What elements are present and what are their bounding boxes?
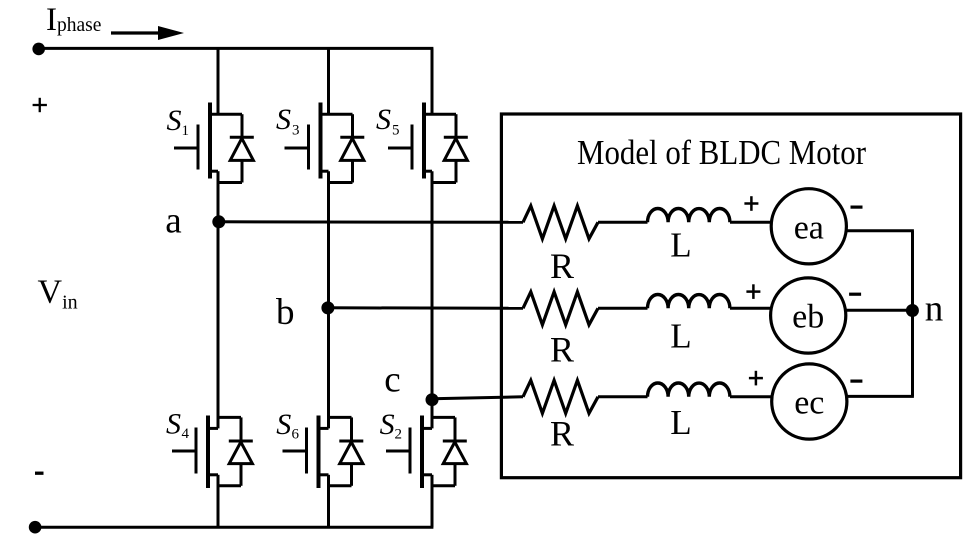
transistor S5 — [388, 103, 468, 183]
svg-text:5: 5 — [392, 122, 400, 138]
svg-text:L: L — [670, 403, 691, 442]
wire L to source eb — [730, 307, 771, 310]
svg-text:2: 2 — [395, 426, 403, 442]
box Model of BLDC Motor — [501, 114, 960, 478]
resistor R (b phase) — [523, 292, 598, 325]
svg-text:L: L — [670, 226, 691, 265]
wire node b to resistor R — [328, 306, 523, 310]
node DC+ terminal — [32, 43, 45, 56]
label plus (a phase) — [744, 196, 758, 211]
node b — [321, 301, 334, 314]
svg-text:S: S — [380, 408, 395, 441]
svg-text:R: R — [550, 414, 574, 454]
label minus (c phase) — [850, 380, 862, 383]
resistor R (a phase) — [523, 206, 598, 239]
wire node c to resistor R — [432, 397, 523, 399]
wire S3 source to node b — [327, 171, 330, 308]
svg-text:b: b — [276, 292, 295, 333]
transistor S3 — [285, 103, 365, 183]
svg-text:c: c — [384, 360, 400, 401]
wire R to L (b phase) — [598, 307, 648, 310]
svg-text:S: S — [166, 408, 181, 441]
wire L to source ea — [730, 221, 771, 224]
svg-text:L: L — [670, 317, 691, 356]
svg-text:S: S — [376, 103, 391, 136]
label plus — [33, 98, 47, 112]
svg-text:S: S — [276, 408, 291, 441]
svg-text:4: 4 — [182, 426, 190, 442]
source ec — [772, 364, 847, 439]
source eb — [771, 278, 846, 353]
svg-text:1: 1 — [182, 123, 190, 139]
wire eb to neutral bus — [846, 309, 914, 312]
wire node a to S4 drain — [217, 222, 220, 429]
svg-text:S: S — [276, 103, 291, 136]
wire node c to S2 drain — [431, 400, 434, 429]
wire ea to neutral bus — [846, 229, 914, 232]
wire neutral bus — [911, 231, 914, 397]
label minus (a phase) — [851, 206, 863, 209]
transistor S1 — [174, 103, 254, 183]
node a — [212, 215, 225, 228]
node DC- terminal — [29, 521, 42, 534]
wire S5 drain lead — [431, 48, 434, 115]
wire S1 source to node a — [217, 171, 220, 222]
svg-text:R: R — [550, 246, 574, 286]
inductor L (c phase) — [648, 383, 730, 397]
inductor L (a phase) — [648, 209, 730, 223]
svg-text:Model of BLDC Motor: Model of BLDC Motor — [577, 133, 866, 172]
svg-text:a: a — [165, 201, 181, 242]
wire node a to resistor R — [219, 220, 523, 224]
svg-text:ea: ea — [794, 209, 824, 246]
wire S5 source to node c — [431, 171, 434, 400]
svg-text:Vin: Vin — [38, 274, 78, 314]
label minus (b phase) — [849, 293, 861, 296]
svg-text:ec: ec — [794, 385, 824, 422]
svg-text:R: R — [550, 330, 574, 370]
arrow current direction — [111, 26, 184, 40]
svg-text:n: n — [925, 289, 944, 330]
svg-text:3: 3 — [292, 122, 300, 138]
node n — [906, 304, 919, 317]
wire S4 source lead — [217, 475, 220, 527]
label plus (b phase) — [746, 284, 760, 299]
wire S2 source lead — [431, 475, 434, 527]
svg-text:S: S — [167, 104, 182, 137]
wire L to source ec — [730, 395, 772, 398]
wire ec to neutral bus — [847, 395, 914, 398]
transistor S2 — [386, 416, 467, 489]
wire bottom bus — [35, 526, 433, 529]
node c — [426, 393, 439, 406]
wire S6 source lead — [327, 475, 330, 527]
transistor S6 — [283, 416, 364, 489]
source ea — [771, 189, 846, 264]
transistor S4 — [172, 416, 253, 489]
wire top bus — [39, 47, 434, 50]
wire R to L (a phase) — [598, 221, 648, 224]
resistor R (c phase) — [523, 380, 598, 413]
wire S1 drain lead — [217, 48, 220, 115]
wire node b to S6 drain — [327, 308, 330, 429]
svg-text:6: 6 — [292, 426, 300, 442]
label minus — [35, 472, 44, 475]
svg-text:Iphase: Iphase — [46, 2, 101, 38]
label plus (c phase) — [749, 371, 763, 386]
inductor L (b phase) — [648, 294, 730, 308]
wire R to L (c phase) — [598, 395, 648, 398]
wire S3 drain lead — [327, 48, 330, 115]
svg-text:eb: eb — [792, 299, 824, 336]
